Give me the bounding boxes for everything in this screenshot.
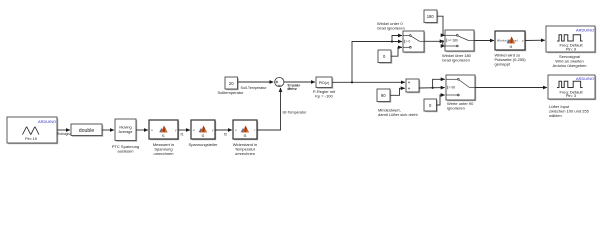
sine wave icon — [23, 127, 40, 135]
junction node after add — [432, 87, 434, 89]
wire: branch to switch1 top port — [392, 36, 402, 42]
svg-text:differenz: differenz — [287, 87, 297, 91]
svg-text:ARDUINO: ARDUINO — [38, 119, 56, 124]
svg-text:Rohsignal: Rohsignal — [57, 132, 72, 136]
svg-text:180: 180 — [427, 14, 435, 19]
constant block 0 (for switch3) — [424, 99, 438, 112]
svg-text:ARDUINO: ARDUINO — [576, 76, 594, 81]
svg-text:r: r — [255, 128, 256, 132]
svg-text:Spannungsteiler: Spannungsteiler — [189, 142, 219, 147]
svg-text:umrechnen: umrechnen — [235, 151, 255, 156]
svg-text:f2: f2 — [202, 134, 205, 138]
wire: sum -> PID, label Temperatur-differenz — [284, 81, 315, 83]
wire: f3 -> sum (Ist-Temperatur feedback) — [257, 88, 281, 130]
svg-text:> 0: > 0 — [406, 40, 411, 44]
switch2 block (>= 180) — [442, 30, 475, 62]
PID controller block — [313, 77, 336, 99]
svg-text:90: 90 — [381, 93, 386, 98]
svg-text:f4: f4 — [510, 45, 513, 49]
wire: 20 -> sum, label Soll-Temperatur — [238, 81, 274, 83]
wire: f1 -> f2, signal label f1 — [178, 129, 190, 131]
matlab function block f2 — [189, 120, 219, 147]
svg-text:>= 180: >= 180 — [448, 39, 458, 43]
wire: f2 -> f3, signal label f2 — [215, 129, 232, 131]
svg-text:auslesen: auslesen — [117, 149, 133, 154]
wire: switch2 -> f4 — [474, 40, 494, 42]
svg-text:ignorieren: ignorieren — [447, 105, 465, 110]
svg-text:Arduino übergeben: Arduino übergeben — [552, 63, 586, 68]
constant block 20 (Solltemperatur) — [217, 77, 244, 95]
svg-text:f1: f1 — [162, 134, 165, 138]
wire: junction up to switch1 row — [352, 42, 402, 83]
svg-text:Pin: 15: Pin: 15 — [25, 137, 37, 141]
matlab function block f3 — [233, 120, 258, 156]
arduino PWM output block (Pin 9, Servosignal) — [546, 26, 596, 68]
svg-text:umrechnen: umrechnen — [153, 151, 173, 156]
svg-text:wählen: wählen — [549, 113, 562, 118]
wire: 90 -> add block bottom port — [390, 88, 405, 95]
junction node before switch1 — [391, 40, 393, 42]
constant block 90 (Mindestwert) — [377, 89, 418, 117]
svg-text:Kp = -100: Kp = -100 — [315, 94, 333, 99]
svg-text:Soll-Temperatur: Soll-Temperatur — [241, 86, 268, 90]
svg-text:Pin: 9: Pin: 9 — [566, 46, 577, 51]
data type conversion block "double" — [71, 124, 103, 137]
junction node on PID output — [351, 81, 353, 83]
svg-text:PID(z): PID(z) — [319, 81, 329, 85]
svg-text:Pin: 3: Pin: 3 — [566, 93, 577, 98]
wire: double -> moving average — [102, 129, 114, 131]
svg-text:Ist-Temperatur: Ist-Temperatur — [283, 111, 308, 115]
svg-text:f2: f2 — [224, 132, 227, 136]
svg-text:> 90: > 90 — [449, 86, 456, 90]
wire: add out -> junction -> switch3 top + middle ports — [419, 87, 445, 89]
arduino PWM output block (Pin 3, Luefter) — [548, 75, 596, 118]
matlab function block f1 — [149, 120, 179, 156]
svg-text:gemappt: gemappt — [495, 62, 511, 67]
switch3 block (>= 90) — [446, 75, 476, 110]
svg-text:f1: f1 — [181, 132, 184, 136]
wire: 180 -> switch2 top port — [437, 16, 445, 35]
wire: 0 -> switch1 bottom port — [391, 47, 402, 56]
svg-text:damit Lüfter sich dreht: damit Lüfter sich dreht — [378, 112, 418, 117]
svg-text:f3: f3 — [244, 134, 247, 138]
arduino analog input block (Pin 15) — [7, 117, 58, 144]
wire: branch up to switch3 top port — [433, 79, 445, 88]
wire: switch1 -> switch2 (junction splits to middle+bottom ports) — [424, 40, 443, 42]
wire: arduino -> double — [57, 129, 70, 131]
matlab function block f4 — [495, 31, 527, 67]
moving average block — [112, 119, 139, 154]
svg-text:Solltemperatur: Solltemperatur — [217, 90, 244, 95]
wire: switch3 -> arduino PWM pin 3 — [475, 87, 547, 89]
wire: moving average -> f1 — [136, 129, 148, 131]
svg-text:ARDUINO: ARDUINO — [576, 27, 594, 32]
sum block (+/-) — [275, 77, 284, 86]
wire: branch down into switch2 bottom port — [443, 41, 445, 46]
junction node before switch2 — [442, 40, 444, 42]
svg-text:double: double — [79, 128, 95, 134]
svg-text:Average: Average — [118, 130, 132, 134]
svg-text:Grad ignorieren: Grad ignorieren — [377, 25, 405, 30]
wire: f4 -> arduino PWM pin 9 — [525, 39, 545, 41]
constant block 0 (for switch1) — [378, 50, 392, 64]
wire: PID out to junction and add block — [332, 81, 405, 83]
constant block 180 — [424, 10, 438, 24]
add block (+ +) — [406, 79, 420, 93]
svg-text:Moving: Moving — [119, 126, 131, 130]
svg-text:Grad ignorieren: Grad ignorieren — [442, 57, 470, 62]
svg-text:20: 20 — [229, 81, 234, 86]
wire: 0 -> switch3 bottom port — [437, 95, 445, 105]
switch1 block (> 0) — [403, 31, 425, 53]
